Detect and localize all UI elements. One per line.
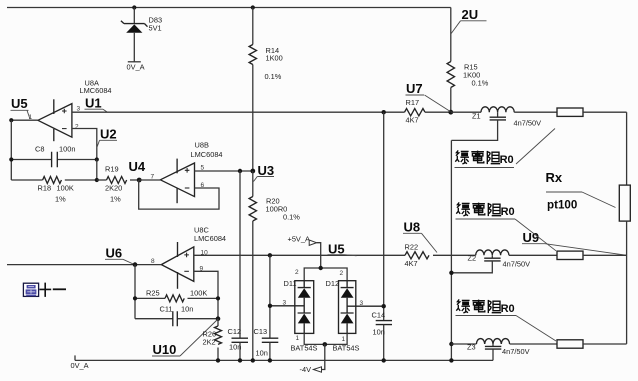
capacitor C11 10n: [135, 318, 218, 320]
op-amp U8B: [160, 159, 194, 204]
box line-resistance R0 top: [557, 108, 583, 116]
svg-text:100K: 100K: [57, 184, 74, 193]
svg-text:1%: 1%: [55, 195, 66, 204]
wire below Rx: [626, 221, 628, 344]
wire 2V rail corner down to R15: [450, 8, 452, 62]
wire U8C+ pin10 line to R22: [194, 254, 405, 256]
svg-text:U3: U3: [258, 163, 275, 178]
wire top 2V rail: [7, 7, 451, 9]
svg-text:2: 2: [75, 124, 79, 131]
ground 0V_A under D83: [128, 61, 141, 63]
svg-text:0.1%: 0.1%: [472, 79, 489, 88]
svg-text:U10: U10: [153, 342, 177, 357]
svg-text:R19: R19: [105, 165, 119, 174]
resistor R19 2K20: [97, 179, 107, 181]
svg-text:2K20: 2K20: [105, 184, 122, 193]
svg-text:4n7/50V: 4n7/50V: [502, 347, 530, 356]
wire U8B+ pin5 to V3: [195, 170, 253, 172]
wire V6 line: [7, 264, 161, 266]
box line-resistance R0 middle: [557, 251, 583, 259]
svg-text:2U: 2U: [462, 7, 479, 22]
wire R14 top connection: [251, 5, 255, 9]
wire V1 line U8A+ to R17: [72, 111, 405, 113]
svg-text:+5V_A: +5V_A: [288, 235, 310, 244]
wire cap common bus: [450, 140, 452, 360]
svg-text:D12: D12: [326, 279, 340, 288]
resistor R18 100K: [11, 179, 42, 181]
svg-text:1: 1: [342, 336, 346, 343]
capacitor C8 100n: [11, 159, 97, 161]
svg-text:5V1: 5V1: [149, 23, 162, 32]
diode D11 BAT54S: [270, 281, 314, 334]
svg-text:4K7: 4K7: [405, 259, 418, 268]
label 線電阻R0 bottom: [456, 299, 514, 315]
svg-text:U9: U9: [523, 230, 540, 245]
svg-text:10n: 10n: [373, 328, 385, 337]
wire right edge down to Rx: [626, 112, 628, 185]
inductor Z1: [451, 111, 481, 113]
inductor Z2: [476, 250, 509, 255]
svg-text:C11: C11: [160, 305, 173, 314]
svg-text:1K00: 1K00: [266, 54, 283, 63]
resistor R17 4K7: [405, 109, 426, 116]
svg-text:R18: R18: [38, 184, 52, 193]
svg-text:U7: U7: [406, 81, 423, 96]
svg-text:-4V: -4V: [300, 365, 312, 374]
zener D83 5V1: [121, 21, 148, 27]
capacitor 4n7/50V on Z1: [497, 112, 499, 117]
svg-text:R22: R22: [405, 243, 419, 252]
svg-text:Z1: Z1: [472, 112, 481, 121]
svg-text:2: 2: [295, 269, 299, 276]
svg-text:0.1%: 0.1%: [283, 213, 300, 222]
node V4: [137, 178, 142, 183]
node V7: [448, 110, 453, 115]
wire C14 column from V1 line: [382, 110, 386, 114]
wire D83 anode down: [133, 33, 135, 62]
capacitor C12 10n: [232, 338, 249, 342]
svg-text:LMC6084: LMC6084: [80, 86, 112, 95]
svg-text:0V_A: 0V_A: [71, 361, 89, 370]
svg-text:R17: R17: [406, 98, 420, 107]
svg-text:U8B: U8B: [195, 141, 209, 150]
resistor R15 1K00: [447, 62, 454, 88]
capacitor 4n7/50V on Z3: [492, 344, 494, 346]
wire U8B output to V4: [139, 179, 160, 181]
svg-text:U6: U6: [106, 246, 123, 261]
svg-text:1: 1: [296, 335, 300, 342]
junction dots on rail: [216, 358, 220, 362]
svg-text:2K2: 2K2: [203, 338, 216, 347]
figure caption 圖十一: [23, 283, 66, 297]
svg-text:U2: U2: [100, 127, 117, 142]
svg-text:10n: 10n: [256, 349, 268, 358]
wire bottom 0V_A rail: [75, 359, 493, 361]
op-amp U8C: [161, 242, 194, 289]
svg-text:4n7/50V: 4n7/50V: [514, 119, 542, 128]
svg-text:Z3: Z3: [467, 343, 476, 352]
svg-text:0V_A: 0V_A: [127, 63, 145, 72]
op-amp U8A: [38, 99, 72, 141]
capacitor C13 10n: [262, 338, 279, 342]
svg-text:C12: C12: [228, 327, 242, 336]
wire U8A- to V2: [72, 129, 97, 160]
svg-text:D11: D11: [284, 279, 297, 288]
resistor Rx pt100 sensor box: [619, 185, 630, 221]
svg-text:4n7/50V: 4n7/50V: [503, 259, 531, 268]
wire R15 to V7: [450, 88, 452, 113]
svg-text:10n: 10n: [229, 343, 241, 352]
svg-text:U8: U8: [404, 220, 421, 235]
svg-text:R25: R25: [146, 289, 160, 298]
svg-text:100n: 100n: [59, 145, 75, 154]
svg-text:3: 3: [77, 106, 81, 113]
box line-resistance R0 bottom: [557, 340, 583, 348]
svg-text:pt100: pt100: [547, 199, 577, 212]
wire V2 node down to R18 row: [96, 160, 98, 181]
svg-text:10n: 10n: [181, 305, 193, 314]
capacitor C14 10n: [376, 321, 392, 325]
wire V3 stub to C12 column: [239, 171, 241, 338]
svg-text:C13: C13: [254, 327, 268, 336]
svg-text:1%: 1%: [110, 195, 121, 204]
wire U8C- pin9: [194, 271, 218, 318]
wire D11 D12 top connector: [304, 268, 347, 281]
resistor R25 100K: [135, 297, 165, 299]
wire D11 D12 bottom connector: [304, 333, 347, 344]
resistor R26 2K2: [217, 319, 219, 326]
wire U8A output: [11, 119, 38, 121]
svg-text:Rx: Rx: [546, 170, 563, 185]
diode D12 BAT54S: [339, 281, 384, 334]
node A: junction dot top rail / D83: [132, 5, 136, 9]
wire U8C output vertical: [134, 265, 136, 319]
resistor R14 1K00: [249, 45, 256, 65]
svg-text:3: 3: [360, 300, 364, 307]
label 線電阻R0 middle: [456, 202, 514, 218]
wire U8A feedback left vertical: [10, 120, 12, 180]
node V3: [238, 169, 242, 173]
svg-text:U1: U1: [85, 96, 102, 111]
svg-text:4K7: 4K7: [406, 115, 419, 124]
capacitor 4n7/50V on Z2: [491, 255, 493, 258]
svg-text:100K: 100K: [190, 289, 207, 298]
resistor R20 100R0: [252, 171, 254, 197]
wire C13 column: [268, 253, 272, 257]
svg-text:C8: C8: [35, 145, 44, 154]
wire D83 to rail: [133, 8, 135, 24]
wire U8B feedback loop: [139, 180, 219, 209]
svg-text:U5: U5: [11, 96, 28, 111]
svg-text:3: 3: [283, 300, 287, 307]
svg-text:LMC6084: LMC6084: [191, 150, 223, 159]
wire R14 down to V3: [252, 65, 254, 172]
svg-text:C14: C14: [372, 311, 386, 320]
svg-text:2: 2: [340, 270, 344, 277]
svg-text:Z2: Z2: [468, 254, 477, 263]
svg-text:0.1%: 0.1%: [265, 72, 282, 81]
power -4V arrow: [322, 344, 325, 369]
resistor R22 4K7: [405, 252, 429, 259]
label 線電阻R0 top: [455, 150, 513, 166]
svg-text:LMC6084: LMC6084: [194, 234, 226, 243]
svg-text:U4: U4: [129, 159, 146, 174]
inductor Z3: [449, 342, 453, 346]
